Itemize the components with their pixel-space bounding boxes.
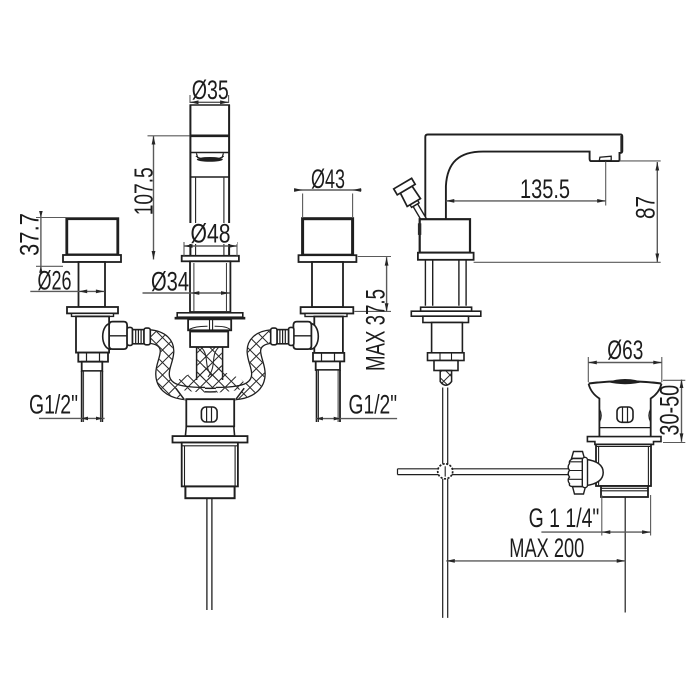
flexible hose center braid tube xyxy=(201,346,219,380)
dim O34 xyxy=(143,291,230,295)
front drain tailpiece xyxy=(185,486,234,498)
svg-text:87: 87 xyxy=(631,196,661,219)
front drain body tube xyxy=(182,443,238,487)
drain body side notches xyxy=(599,409,650,422)
drain lever housing xyxy=(617,407,633,422)
svg-text:Ø48: Ø48 xyxy=(191,219,231,249)
left valve hex xyxy=(78,353,108,362)
dim G1/2 left xyxy=(39,417,105,421)
white funnel under bell xyxy=(177,389,244,400)
side spout inner line xyxy=(445,186,447,253)
side threaded shanks xyxy=(425,260,466,306)
front drain basin flange xyxy=(173,436,248,442)
drain top taper xyxy=(589,384,662,442)
left handle deck flange xyxy=(67,307,118,313)
aerator xyxy=(196,153,223,158)
side hose stub xyxy=(440,371,451,386)
svg-text:Ø35: Ø35 xyxy=(192,75,229,105)
left elbow hex nut xyxy=(109,322,127,350)
knurled pivot nut body xyxy=(568,459,583,487)
svg-text:MAX 200: MAX 200 xyxy=(509,533,584,563)
svg-text:Ø63: Ø63 xyxy=(607,335,643,365)
left valve thread collar xyxy=(82,362,103,371)
waste drain assembly (side, bottom right) xyxy=(568,379,661,613)
drain centre line xyxy=(624,497,626,613)
side lower flange xyxy=(421,307,472,311)
right inlet tube G1/2 xyxy=(317,370,340,422)
side mounting block xyxy=(423,316,469,322)
right handle assembly xyxy=(271,219,357,422)
deck flange of spout xyxy=(175,313,246,318)
left flexible hose xyxy=(149,337,205,395)
svg-text:Ø43: Ø43 xyxy=(311,164,345,194)
pivot dome block xyxy=(586,459,604,485)
front pop-up rod xyxy=(207,498,212,610)
drain basin flange xyxy=(587,437,661,445)
svg-text:MAX 37.5: MAX 37.5 xyxy=(361,289,391,371)
side view faucet xyxy=(394,135,623,618)
side body lever notch xyxy=(418,223,421,235)
side spout aerator tip xyxy=(599,156,611,160)
spout underbody xyxy=(190,332,228,348)
right valve thread collar xyxy=(316,361,340,370)
left inlet tube G1/2 xyxy=(82,371,103,422)
right flexible hose xyxy=(216,337,272,395)
pop-up vertical rod upper xyxy=(443,388,448,464)
dim O48 xyxy=(184,242,237,256)
side lever xyxy=(394,178,434,226)
drain body joint xyxy=(599,427,650,429)
svg-text:107.5: 107.5 xyxy=(131,167,159,215)
right hose coupling collar xyxy=(289,327,294,345)
funnel side edges xyxy=(176,388,244,399)
pop-up vertical rod lower xyxy=(443,479,448,618)
dim O26 xyxy=(30,290,104,294)
drain top dome xyxy=(608,379,643,384)
dim 87 xyxy=(474,161,661,262)
pop-up pivot ball xyxy=(438,464,453,479)
svg-text:G1/2": G1/2" xyxy=(349,390,398,420)
right handle deck flange xyxy=(301,307,354,313)
svg-text:G 1 1/4": G 1 1/4" xyxy=(529,503,600,533)
pop-up horizontal rod xyxy=(398,469,571,475)
left handle assembly xyxy=(63,219,150,422)
spout column (front view) xyxy=(190,104,231,256)
left handle stem xyxy=(79,262,106,307)
right hose crimp ridges xyxy=(277,330,289,344)
aerator ring joint xyxy=(190,152,231,154)
left hose coupling collar xyxy=(127,327,132,345)
dim MAX 200 xyxy=(446,559,625,563)
svg-text:Ø26: Ø26 xyxy=(38,266,72,296)
spout base flange (O48) xyxy=(182,256,239,261)
svg-text:Ø34: Ø34 xyxy=(151,267,189,297)
dim O35 xyxy=(190,95,229,104)
side collar xyxy=(434,361,458,371)
pivot nut washer xyxy=(582,457,587,487)
left hose crimp ridges xyxy=(133,330,145,344)
right handle body xyxy=(303,219,353,256)
svg-text:30-50: 30-50 xyxy=(655,385,685,436)
dim 135.5 xyxy=(446,162,606,206)
svg-text:G1/2": G1/2" xyxy=(29,390,78,420)
knurled pivot nut bottom tooth xyxy=(573,487,586,495)
dim G1/2 right xyxy=(316,417,397,421)
spout head joint line xyxy=(190,135,231,138)
dim MAX 37.5 xyxy=(354,257,391,312)
drain tailpiece thread G 1 1/4 xyxy=(601,486,648,497)
right handle stem xyxy=(312,262,343,307)
side spout tip inner edge xyxy=(620,136,622,152)
hose trumpet bell xyxy=(174,366,245,392)
dim O63 xyxy=(588,357,662,382)
left elbow dome xyxy=(103,324,111,350)
column inner edge lines xyxy=(196,178,224,255)
drain lower body xyxy=(596,444,651,486)
right elbow dome xyxy=(311,324,319,350)
dim O43 xyxy=(294,188,362,218)
right handle base flange xyxy=(299,255,357,262)
side hex nut xyxy=(428,353,465,361)
side spout outline xyxy=(425,135,622,253)
dim 37.7 xyxy=(36,211,67,273)
front drain lever housing xyxy=(201,407,217,422)
left handle base flange xyxy=(63,255,121,262)
side body xyxy=(420,219,470,253)
column joint xyxy=(190,176,231,178)
right valve hex xyxy=(313,353,344,362)
label O48 xyxy=(189,219,237,249)
dim G 1 1/4 xyxy=(541,495,650,536)
knurled pivot nut top tooth xyxy=(572,452,585,459)
side deck flange xyxy=(418,253,474,260)
right elbow hex nut xyxy=(293,322,311,350)
spout mounting nut xyxy=(188,319,231,330)
left valve body xyxy=(76,316,109,352)
spout shank (O34) xyxy=(190,261,230,312)
right valve body xyxy=(314,317,343,353)
dim 30-50 xyxy=(663,380,685,443)
svg-text:37.7: 37.7 xyxy=(15,213,45,256)
left handle body xyxy=(67,219,118,255)
dim 107.5 xyxy=(148,136,190,260)
svg-text:135.5: 135.5 xyxy=(520,174,570,204)
pop-up waste body (front view) xyxy=(173,399,248,610)
